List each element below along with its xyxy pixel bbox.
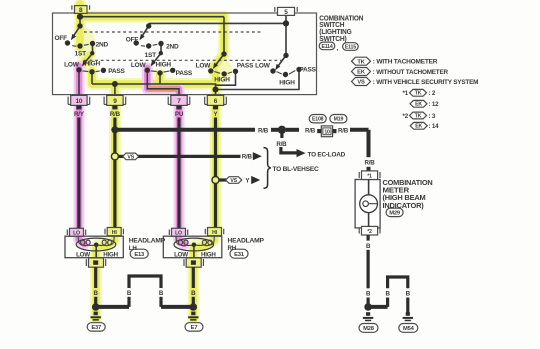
svg-text:1ST: 1ST — [145, 52, 157, 59]
svg-text:Y: Y — [245, 177, 250, 184]
svg-text:SWITCH): SWITCH) — [319, 36, 346, 43]
svg-text:LOW: LOW — [64, 61, 80, 68]
svg-text:HI: HI — [112, 230, 118, 236]
svg-text:2ND: 2ND — [96, 41, 109, 48]
svg-text:M29: M29 — [389, 211, 401, 217]
svg-text:R/B: R/B — [242, 154, 253, 161]
svg-text:*2: *2 — [403, 113, 409, 120]
svg-text:5: 5 — [284, 9, 288, 16]
svg-text:E114: E114 — [321, 44, 332, 50]
svg-text:M54: M54 — [403, 326, 415, 332]
svg-text:E7: E7 — [191, 325, 198, 331]
svg-text:LOW: LOW — [174, 252, 188, 259]
svg-text:*2: *2 — [367, 229, 372, 235]
svg-text:HEADLAMP: HEADLAMP — [129, 238, 165, 245]
svg-text:INDICATOR): INDICATOR) — [383, 203, 424, 210]
svg-text:B: B — [159, 290, 164, 297]
svg-text:1ST: 1ST — [75, 50, 87, 57]
svg-text:LH: LH — [129, 245, 138, 252]
svg-text:VS: VS — [230, 178, 237, 184]
svg-text:VS: VS — [127, 154, 134, 160]
svg-text:OFF: OFF — [54, 35, 67, 42]
svg-text:PASS: PASS — [237, 62, 254, 69]
svg-text:10: 10 — [75, 98, 82, 105]
svg-text:HI: HI — [212, 230, 218, 236]
svg-text:PASS: PASS — [108, 68, 125, 75]
svg-text:TK: TK — [415, 113, 422, 119]
svg-text:E37: E37 — [91, 325, 101, 331]
svg-text:R/B: R/B — [338, 127, 349, 134]
svg-text:: 14: : 14 — [429, 123, 440, 130]
svg-text:B: B — [406, 290, 411, 297]
svg-text:HIGH: HIGH — [201, 252, 216, 259]
svg-text:9: 9 — [113, 98, 117, 105]
svg-text:E115: E115 — [345, 45, 356, 51]
svg-text:B: B — [366, 243, 371, 250]
svg-text:2ND: 2ND — [166, 44, 179, 51]
svg-text:6: 6 — [214, 98, 218, 105]
svg-text:M19: M19 — [334, 117, 344, 123]
svg-text:R/Y: R/Y — [74, 111, 85, 118]
svg-text:HIGH: HIGH — [279, 79, 295, 86]
svg-text:EK: EK — [415, 102, 422, 108]
svg-text:LOW: LOW — [131, 62, 147, 69]
svg-text:: 3: : 3 — [429, 113, 436, 120]
svg-text:OFF: OFF — [126, 36, 139, 43]
svg-text:TK: TK — [415, 91, 422, 97]
svg-text:HIGH: HIGH — [155, 62, 171, 69]
svg-text:M28: M28 — [363, 326, 375, 332]
svg-text:PASS: PASS — [299, 67, 316, 74]
svg-text:B: B — [385, 290, 390, 297]
svg-text:LO: LO — [175, 230, 182, 236]
svg-text:*1: *1 — [367, 174, 372, 180]
svg-text:TK: TK — [357, 59, 365, 65]
svg-text:E108: E108 — [312, 117, 324, 123]
svg-text:HIGH: HIGH — [85, 61, 101, 68]
svg-text:RH: RH — [228, 245, 237, 252]
svg-text:R/B: R/B — [110, 111, 121, 118]
svg-text:8: 8 — [79, 7, 83, 14]
svg-text:TO BL-VEHSEC: TO BL-VEHSEC — [273, 166, 320, 173]
svg-text:LOW: LOW — [76, 252, 90, 259]
svg-text:B: B — [127, 290, 132, 297]
svg-text:R/B: R/B — [305, 127, 316, 134]
svg-text:: WITH VEHICLE SECURITY SYSTEM: : WITH VEHICLE SECURITY SYSTEM — [373, 79, 479, 86]
svg-text:7: 7 — [177, 98, 181, 105]
svg-text:METER: METER — [383, 188, 410, 195]
svg-text:: WITHOUT TACHOMETER: : WITHOUT TACHOMETER — [373, 69, 449, 76]
svg-text:LO: LO — [73, 230, 80, 236]
svg-text:: 12: : 12 — [429, 101, 440, 108]
svg-text:: WITH TACHOMETER: : WITH TACHOMETER — [373, 59, 438, 66]
svg-text:PU: PU — [175, 111, 184, 118]
svg-text:10: 10 — [324, 129, 330, 135]
svg-text:EK: EK — [415, 124, 422, 130]
svg-text:R/B: R/B — [276, 141, 287, 148]
svg-text:R/B: R/B — [364, 160, 375, 167]
svg-text:(HIGH BEAM: (HIGH BEAM — [383, 195, 426, 202]
svg-text:B: B — [366, 290, 371, 297]
svg-text:E31: E31 — [234, 252, 245, 258]
svg-text:: 2: : 2 — [429, 90, 436, 97]
svg-text:HIGH: HIGH — [214, 77, 230, 84]
svg-text:R/B: R/B — [258, 127, 269, 134]
svg-text:*1: *1 — [403, 90, 409, 97]
svg-text:VS: VS — [357, 80, 365, 86]
svg-text:LOW: LOW — [196, 62, 212, 69]
svg-text:PASS: PASS — [176, 70, 193, 77]
svg-text:COMBINATION: COMBINATION — [383, 180, 433, 187]
svg-text:E13: E13 — [134, 252, 145, 258]
svg-text:TO EC-LOAD: TO EC-LOAD — [308, 152, 346, 159]
svg-text:HEADLAMP: HEADLAMP — [228, 238, 264, 245]
svg-text:LOW: LOW — [255, 62, 271, 69]
svg-text:HIGH: HIGH — [103, 252, 118, 259]
svg-text:EK: EK — [357, 70, 366, 76]
svg-text:B: B — [191, 290, 196, 297]
svg-text:,: , — [337, 45, 339, 52]
svg-text:B: B — [94, 290, 99, 297]
